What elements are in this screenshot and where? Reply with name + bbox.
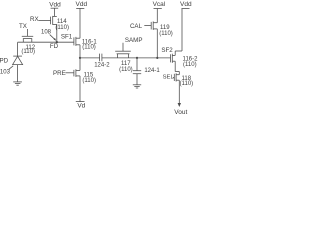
power Vdd middle	[76, 7, 84, 9]
svg-text:(110): (110)	[180, 81, 194, 87]
supply Vd bottom	[76, 101, 85, 103]
svg-text:SAMP: SAMP	[125, 37, 143, 44]
svg-text:(110): (110)	[21, 49, 35, 55]
svg-text:SF1: SF1	[61, 34, 73, 41]
source follower SF2 116-2	[171, 51, 180, 72]
arrow 108 to FD	[50, 35, 57, 41]
svg-text:(110): (110)	[55, 25, 69, 31]
svg-text:FD: FD	[50, 43, 59, 50]
capacitor 124-1	[133, 58, 141, 85]
photodiode PD 103	[13, 42, 23, 82]
svg-text:Vcal: Vcal	[153, 1, 166, 8]
svg-text:(110): (110)	[119, 67, 133, 73]
wire FD: PD to SF1 gate	[18, 41, 74, 43]
svg-text:Vd: Vd	[77, 103, 85, 110]
svg-text:PRE: PRE	[53, 70, 66, 77]
wire capacitor 124-2 to SF2 gate	[102, 57, 171, 59]
precharge transistor PRE 115	[66, 58, 81, 102]
junction dot CAL source on sample wire	[156, 57, 158, 59]
reset transistor RX 114	[39, 16, 57, 42]
capacitor 124-2	[100, 54, 102, 62]
svg-text:Vout: Vout	[174, 109, 187, 116]
calibration transistor CAL 119	[144, 21, 157, 58]
transfer transistor TX 112	[22, 29, 33, 42]
svg-text:103: 103	[0, 70, 11, 76]
svg-text:119: 119	[160, 25, 170, 31]
svg-text:124-2: 124-2	[94, 63, 110, 69]
node A junction dot	[79, 57, 81, 59]
svg-text:Vdd: Vdd	[76, 1, 88, 8]
output arrow Vout	[178, 103, 181, 107]
node FD junction dot	[56, 41, 58, 43]
svg-text:PD: PD	[0, 58, 9, 65]
svg-text:SF2: SF2	[161, 47, 173, 54]
svg-text:SEL: SEL	[163, 74, 175, 80]
svg-text:Vdd: Vdd	[49, 1, 61, 8]
select transistor SEL 118	[173, 72, 180, 104]
svg-text:RX: RX	[30, 16, 39, 23]
svg-text:Vdd: Vdd	[180, 1, 192, 8]
power Vdd left	[51, 8, 59, 16]
source follower SF1 116-1	[74, 8, 80, 58]
power Vdd right	[175, 9, 189, 52]
svg-text:(110): (110)	[82, 78, 96, 84]
svg-text:(110): (110)	[159, 31, 173, 37]
wire node A to capacitor 124-2	[80, 57, 100, 59]
ground below capacitor 124-1	[133, 85, 141, 88]
svg-text:(110): (110)	[183, 62, 197, 68]
junction dot capacitor 124-1	[136, 57, 138, 59]
sample transistor SAMP 117	[115, 43, 131, 58]
svg-text:CAL: CAL	[130, 23, 143, 30]
leader 103	[9, 66, 14, 70]
svg-text:TX: TX	[19, 23, 27, 30]
power Vcal	[154, 9, 162, 23]
ground below PD	[13, 82, 22, 85]
svg-text:124-1: 124-1	[144, 68, 160, 74]
svg-text:(110): (110)	[82, 44, 96, 50]
